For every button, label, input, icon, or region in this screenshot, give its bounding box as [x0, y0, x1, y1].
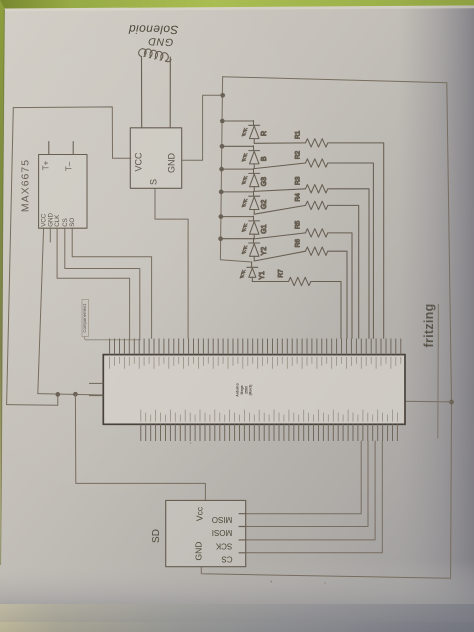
svg-text:T–: T–: [64, 161, 73, 171]
wire LED1 to R1: [254, 142, 305, 144]
wire MAX6675 VCC drop: [38, 228, 44, 393]
junction VCC-SD: [73, 392, 78, 397]
svg-text:Vcc: Vcc: [195, 506, 205, 521]
pin T-: [72, 142, 74, 155]
wire LED row 3 anode: [222, 168, 254, 170]
wire solenoid GND link: [182, 95, 223, 160]
junction LED row 2: [220, 144, 225, 149]
Arduino pin labels bottom row: [141, 410, 398, 422]
svg-text:Y1: Y1: [259, 271, 266, 280]
fritzing frame line: [437, 304, 440, 439]
resistor R1: [306, 139, 328, 147]
svg-text:(Rev3): (Rev3): [249, 385, 253, 396]
wire VCC bottom-left jog: [7, 395, 58, 406]
Arduino top pins: [110, 339, 401, 355]
svg-text:SO: SO: [69, 218, 76, 227]
resistor R4: [306, 201, 328, 209]
resistor R3: [306, 185, 328, 193]
svg-text:VCC: VCC: [134, 152, 144, 172]
wire MAX SO: [72, 228, 151, 338]
svg-text:fritzing: fritzing: [422, 303, 436, 347]
LED D2 (B): [242, 146, 260, 169]
svg-text:B: B: [261, 156, 268, 161]
wire MAX CLK: [57, 228, 130, 338]
junction LED row 6: [218, 236, 223, 241]
junction LED row 5: [219, 214, 224, 219]
svg-text:R4: R4: [295, 193, 302, 202]
junction LED row 4: [219, 190, 224, 195]
wire LED row 1 anode: [222, 120, 253, 122]
wire LED row 5 anode: [221, 216, 254, 218]
svg-text:GND: GND: [194, 542, 204, 561]
wire VCC left bus: [7, 108, 14, 405]
speck: [271, 581, 273, 583]
junction LED row 1: [220, 119, 225, 124]
svg-text:G3: G3: [261, 177, 268, 186]
wire LED row 6 anode: [221, 238, 254, 240]
wire MAX GND stub: [49, 228, 51, 242]
junction GND-solenoid: [220, 93, 225, 98]
Arduino left pins: [89, 383, 103, 395]
wire SD MISO: [246, 441, 362, 514]
wire LED7 to R7: [252, 281, 288, 283]
svg-text:R: R: [261, 131, 268, 136]
svg-text:CS: CS: [62, 218, 69, 227]
wire Arduino right pin: [405, 400, 452, 403]
svg-text:Solenoid: Solenoid: [128, 22, 178, 37]
label Arduino Mega 2560 (Rev3): [236, 383, 253, 396]
wire R6 to Arduino: [328, 251, 347, 338]
svg-text:MAX6675: MAX6675: [20, 159, 32, 212]
svg-text:MISO: MISO: [212, 515, 232, 524]
junction VCC-left: [55, 392, 60, 397]
svg-text:Arduino: Arduino: [236, 383, 240, 396]
wire R5 to Arduino: [328, 233, 352, 339]
svg-text:SD: SD: [151, 529, 162, 543]
svg-text:Componentes1: Componentes1: [82, 303, 87, 333]
wire GND bottom: [201, 567, 450, 578]
svg-text:R6: R6: [295, 239, 302, 248]
svg-text:MOSI: MOSI: [212, 528, 232, 537]
svg-text:T+: T+: [42, 160, 51, 170]
wire VCC top-left: [13, 107, 131, 158]
SD card module box: [166, 500, 246, 566]
junction LED row 3: [219, 167, 224, 172]
svg-text:S: S: [149, 179, 159, 185]
wire LED3 to R3: [254, 189, 305, 192]
speck: [324, 582, 325, 583]
svg-text:GND: GND: [167, 153, 177, 174]
svg-text:R2: R2: [295, 150, 302, 159]
LED D7 (Y1): [240, 263, 258, 282]
wire LED row 7 anode: [251, 262, 253, 263]
svg-text:R5: R5: [295, 220, 302, 229]
thermocouple IC U1 MAX6675 box: [39, 155, 87, 229]
wire solenoid pin left: [141, 57, 143, 129]
speck: [190, 442, 192, 444]
resistor R2: [306, 159, 328, 167]
resistor R5: [306, 229, 328, 237]
wire GND right bus: [447, 83, 452, 579]
svg-text:R7: R7: [278, 269, 285, 278]
svg-text:2560: 2560: [244, 386, 248, 394]
svg-text:G2: G2: [261, 200, 268, 209]
wire VCC to SD: [75, 394, 205, 500]
wire GND top bus: [223, 77, 447, 83]
Arduino pin labels top row: [110, 357, 401, 369]
svg-text:Mega: Mega: [240, 385, 244, 394]
Arduino bottom pins: [141, 424, 398, 441]
svg-text:G1: G1: [261, 224, 268, 233]
wire LED4 to R4: [254, 205, 305, 214]
wire SD CS: [246, 441, 383, 553]
wire LED6 to R6: [254, 251, 305, 261]
wire solenoid S to Arduino: [155, 189, 188, 339]
wire R2 to Arduino: [328, 163, 374, 338]
wire R3 to Arduino: [328, 189, 369, 339]
wire LED5 to R5: [254, 233, 305, 239]
relay/driver U2 box: [130, 128, 181, 189]
LED D6 (Y2): [242, 238, 260, 261]
LED D5 (G1): [242, 216, 260, 239]
wire R1 to Arduino: [328, 143, 384, 339]
wire LED2 to R2: [254, 163, 305, 169]
svg-text:CLK: CLK: [54, 214, 61, 227]
LED D1 (R): [242, 121, 260, 144]
wire R4 to Arduino: [328, 205, 359, 338]
svg-text:R3: R3: [295, 176, 302, 185]
wire MAX CS: [65, 228, 140, 338]
LED D4 (G2): [242, 191, 260, 214]
resistor R7: [289, 277, 311, 285]
wire SD SCK: [246, 441, 375, 540]
svg-text:CS: CS: [221, 555, 232, 564]
svg-text:SCK: SCK: [215, 542, 232, 551]
svg-text:GND: GND: [147, 35, 173, 48]
svg-text:R1: R1: [295, 130, 302, 139]
wire LED row 2 anode: [222, 145, 254, 147]
junction GND right: [449, 400, 454, 405]
wire VCC horizontal to Arduino: [38, 394, 104, 395]
inductor L1 solenoid coil: [139, 49, 171, 62]
wire solenoid pin right: [169, 57, 171, 128]
microcontroller A1 Arduino Mega 2560 box: [103, 355, 405, 425]
wire LED row 4 anode: [221, 191, 253, 193]
svg-text:Y2: Y2: [261, 247, 268, 256]
label Componentes1 frame: [82, 300, 89, 337]
SD right pin stubs: [239, 514, 246, 553]
wire SD MOSI: [246, 441, 368, 527]
wire GND LED bus: [220, 77, 251, 262]
wire R7 to Arduino: [311, 282, 341, 339]
pin T+: [48, 142, 50, 155]
wire Componentes1 leader: [85, 337, 141, 340]
resistor R6: [306, 247, 328, 255]
LED D3 (G3): [242, 169, 260, 192]
